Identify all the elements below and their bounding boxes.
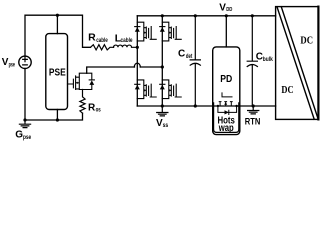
transistor M2 bridge top-right [160, 22, 182, 41]
svg-text:bulk: bulk [263, 57, 274, 63]
wire top rail VDD [137, 15, 275, 17]
DC/DC diagonal slash 1 [277, 7, 314, 119]
ground G_pse [19, 120, 30, 128]
capacitor C_bulk [247, 16, 257, 106]
node return junction [161, 65, 164, 68]
node bottom rail at RTN [252, 104, 255, 107]
svg-text:cable: cable [121, 38, 134, 44]
transistor M4 bridge bottom-right [160, 80, 182, 99]
node top rail at PD [225, 14, 228, 17]
svg-text:C: C [178, 49, 185, 60]
body diode D1 [135, 26, 140, 28]
svg-text:det: det [186, 54, 192, 60]
svg-text:G: G [15, 129, 23, 140]
ground V_ss [157, 106, 168, 116]
wire hop over left bridge rail [134, 63, 140, 67]
body diode of Q1 [89, 79, 94, 81]
body diode D3 [135, 83, 140, 85]
svg-text:DC: DC [281, 85, 293, 96]
hot-swap box [214, 103, 239, 132]
svg-text:DC: DC [300, 36, 313, 47]
ground RTN [248, 106, 259, 114]
body diode D5 [218, 106, 237, 115]
DC/DC diagonal slash 2 [281, 7, 318, 119]
svg-text:V: V [219, 2, 226, 13]
wire bridge right rail [161, 16, 163, 106]
node bottom rail at Vss [161, 104, 164, 107]
transistor M3 bridge bottom-left [135, 80, 157, 99]
body diode D4 [160, 83, 165, 85]
svg-text:cable: cable [96, 38, 108, 44]
wire PSE bottom stub [56, 110, 58, 121]
DC/DC right edge thick [317, 7, 319, 120]
wire Q1 drain riser [87, 67, 135, 73]
node bottom rail at C_det [194, 104, 197, 107]
svg-text:pse: pse [23, 134, 31, 141]
wire PSE top stub [56, 15, 58, 33]
node top rail at C_det [194, 14, 197, 17]
svg-text:PD: PD [220, 73, 232, 85]
node PSE-top junction [56, 14, 59, 17]
wire V_pse bottom [24, 69, 26, 121]
transistor Q1 PSE pass MOSFET [68, 73, 95, 89]
capacitor C_det [190, 16, 200, 106]
node top rail at right bridge leg [161, 14, 164, 17]
wire bottom-left rail [25, 113, 83, 120]
PD box [213, 47, 240, 135]
inductor L_cable [114, 45, 138, 47]
svg-text:os: os [96, 108, 102, 114]
transistor M1 bridge top-left [135, 22, 157, 41]
wire bridge left rail [136, 16, 138, 106]
resistor R_cable [91, 45, 114, 50]
node top rail at C_bulk [251, 14, 254, 17]
svg-text:RTN: RTN [245, 116, 261, 127]
DC/DC converter box [276, 7, 319, 120]
node G_pse junction [23, 118, 26, 121]
svg-text:PSE: PSE [49, 68, 66, 79]
PSE box [46, 34, 68, 110]
body diode D2 [160, 26, 165, 28]
svg-text:R: R [88, 32, 96, 44]
wire top-left: V_pse to cable corner [25, 15, 91, 56]
wire to right bridge rail [140, 66, 162, 68]
node PSE bottom junction [56, 118, 59, 121]
voltage source V_pse [19, 56, 31, 68]
node cable-bridge junction [136, 46, 139, 49]
resistor R_os [80, 90, 85, 114]
svg-text:DD: DD [226, 7, 232, 13]
svg-text:wap: wap [218, 123, 234, 134]
wire bottom rail [137, 105, 275, 107]
svg-text:pse: pse [9, 63, 16, 69]
transistor M5 hot-swap MOSFET [217, 93, 238, 115]
svg-text:ss: ss [163, 123, 169, 129]
wire V_DD stub to PD [225, 16, 227, 47]
